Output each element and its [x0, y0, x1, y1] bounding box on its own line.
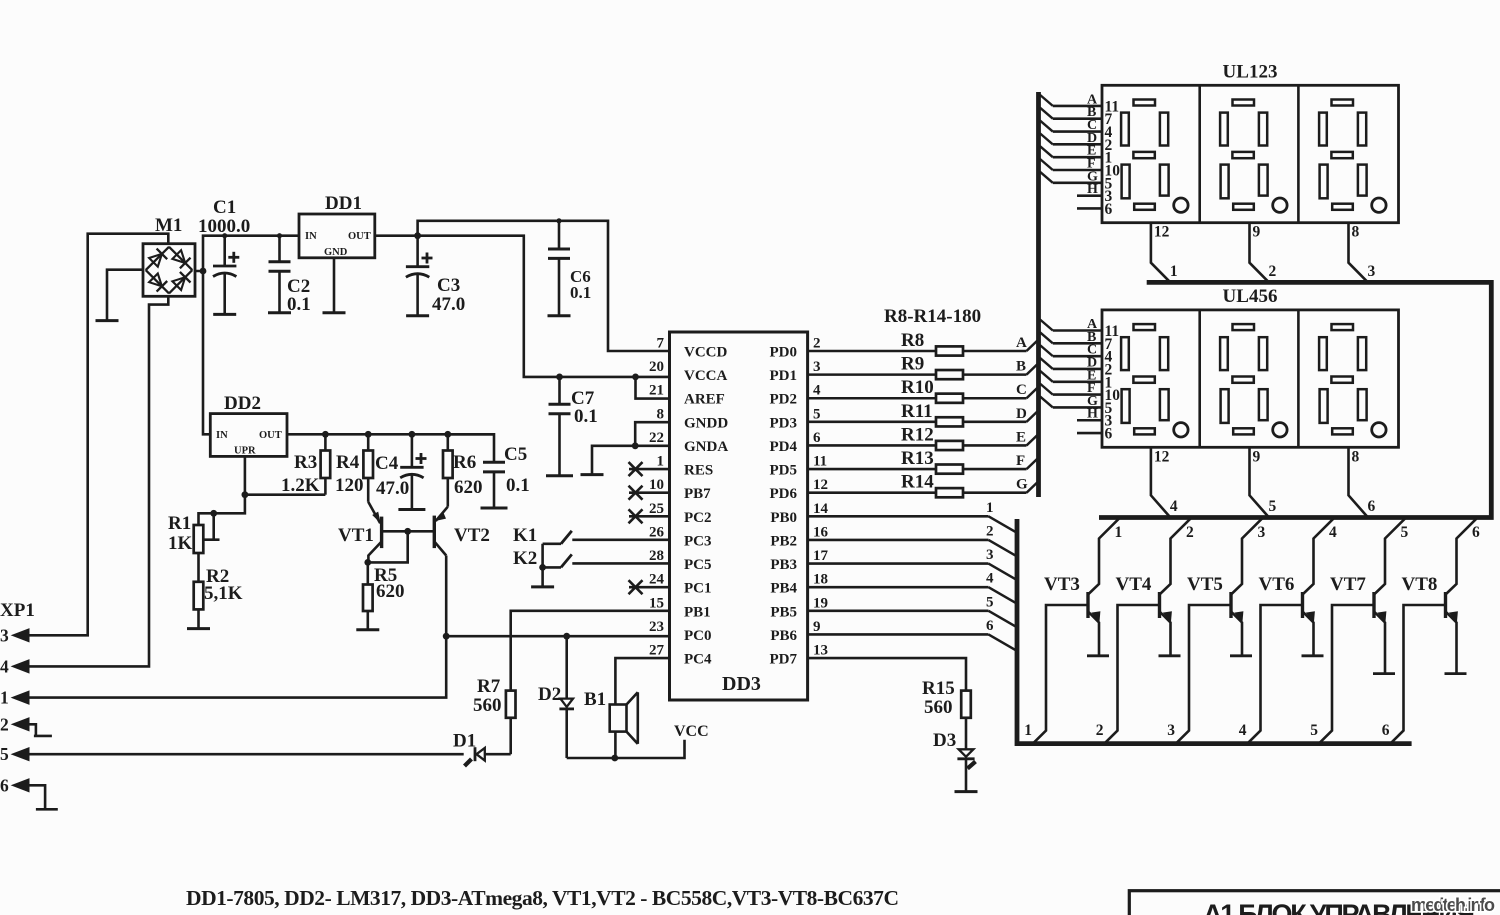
DD3 left pin number 28 [649, 548, 664, 564]
switch K1 [543, 531, 572, 544]
svg-text:medteh.info: medteh.info [1411, 895, 1495, 915]
svg-text:GNDA: GNDA [684, 439, 728, 455]
label D3 [933, 730, 956, 751]
svg-text:C1: C1 [213, 197, 236, 218]
svg-text:A: A [1016, 335, 1027, 351]
XP1 pin 2 number [0, 714, 9, 734]
UL456 digit pin 9 wire [1250, 447, 1270, 517]
capacitor C6 0.1 [548, 221, 570, 316]
DD3 right pin number 6 [813, 430, 821, 446]
label K1 [513, 525, 537, 546]
wire PB1 to R7 [511, 611, 670, 691]
VT6 base bus label 4 [1239, 722, 1247, 739]
DD3 right pin name PB2 [770, 533, 797, 549]
UL456 digit pin number 9 [1253, 448, 1261, 465]
label R14 [901, 472, 934, 493]
node C7 top [556, 374, 563, 381]
DD3 left pin name GNDA [684, 439, 728, 455]
UL123 pin number 10 [1105, 163, 1121, 180]
DD3 right pin number 14 [813, 501, 829, 517]
svg-text:H: H [1087, 182, 1098, 197]
transistor VT7 [1373, 519, 1405, 674]
UL123 segment letter C [1087, 118, 1097, 133]
UL123 segment letter G [1087, 169, 1098, 184]
svg-text:14: 14 [813, 501, 829, 517]
UL123 digit pin 12 wire [1151, 223, 1171, 283]
svg-text:24: 24 [649, 572, 665, 588]
wire GNDD GNDA loop to ground [592, 422, 670, 474]
svg-text:GNDD: GNDD [684, 415, 728, 431]
svg-text:2: 2 [986, 523, 994, 539]
ground for R2 [187, 627, 210, 630]
svg-text:0.1: 0.1 [574, 406, 598, 427]
label digit line 3 [986, 547, 994, 563]
XP1 pin 3 arrow [12, 629, 29, 642]
svg-text:K2: K2 [513, 548, 537, 569]
svg-text:PB4: PB4 [770, 581, 797, 597]
wire +5V upper rail to VCCD pin7 [418, 221, 670, 351]
svg-text:3: 3 [0, 625, 9, 645]
svg-text:DD1: DD1 [325, 193, 362, 214]
label R6 value 620 [454, 477, 483, 498]
label R6 [453, 452, 476, 473]
VT8 base wire from bus [1391, 605, 1446, 743]
svg-text:6: 6 [0, 775, 9, 795]
label R1 value 1K [168, 533, 193, 554]
svg-text:IN: IN [216, 430, 228, 441]
DD3 left pin number 1 [657, 454, 665, 470]
svg-text:PD0: PD0 [770, 345, 798, 361]
voltage regulator DD2 LM317 [210, 414, 287, 457]
svg-text:6: 6 [1472, 524, 1480, 541]
UL123 select wire label 1 [1170, 263, 1178, 280]
label C3 [437, 275, 460, 296]
svg-text:R7: R7 [477, 676, 501, 697]
node VT1 collector R5 [364, 559, 371, 566]
svg-text:PB0: PB0 [770, 510, 797, 526]
UL456 segment letter G [1087, 394, 1098, 409]
wire M1 bottom to XP1 pin4 [29, 296, 168, 666]
wire AREF loop [636, 377, 670, 399]
resistor R3 1.2K [321, 434, 331, 494]
VT5 base wire from bus [1176, 605, 1231, 743]
capacitor C2 0.1 [269, 236, 291, 313]
wire R3 bottom to DD2 UPR and R1 [199, 456, 326, 525]
label C6 value 0.1 [570, 283, 591, 302]
UL123 pin6 stub [1077, 207, 1102, 210]
UL123 digit pin number 8 [1352, 224, 1360, 241]
node C4 top [409, 431, 416, 438]
svg-text:1: 1 [0, 688, 9, 708]
VT6 collector bus label 4 [1329, 524, 1337, 541]
UL123 select wire label 3 [1368, 263, 1376, 280]
DD3 left pin number 22 [649, 430, 664, 446]
ground for C3 [406, 314, 429, 317]
UL123 digit pin number 12 [1154, 224, 1170, 241]
svg-text:PD4: PD4 [770, 439, 798, 455]
label B1 [584, 689, 606, 710]
label D1 [453, 731, 476, 752]
DD3 left pin number 25 [649, 501, 664, 517]
X mark PB7 [629, 486, 643, 500]
UL456 segment A wire from bus [1040, 320, 1102, 331]
svg-text:47.0: 47.0 [432, 294, 465, 315]
svg-text:2: 2 [1096, 722, 1104, 739]
label segment D at resistor [1016, 406, 1027, 422]
transistor VT5 [1230, 519, 1262, 656]
XP1 pin 2 arrow [12, 718, 29, 731]
svg-text:3: 3 [1167, 722, 1175, 739]
DD3 left pin number 27 [649, 643, 665, 659]
transistor VT6 [1302, 519, 1334, 656]
wire PB digit line 5 [808, 611, 1017, 628]
label C3 value 47.0 [432, 294, 465, 315]
capacitor C1 1000.0 polarized [213, 236, 239, 315]
wire PB digit line 1 [808, 516, 1017, 533]
svg-text:23: 23 [649, 619, 664, 635]
svg-text:17: 17 [813, 548, 829, 564]
DD3 left pin name PB1 [684, 604, 711, 620]
resistor R14 180 [936, 488, 963, 497]
UL123 pin number 2 [1105, 137, 1113, 154]
svg-text:XP1: XP1 [0, 600, 35, 621]
label R2 value 5,1K [204, 583, 243, 604]
svg-text:G: G [1016, 477, 1028, 493]
VT4 base bus label 2 [1096, 722, 1104, 739]
DD3 right pin number 17 [813, 548, 829, 564]
label DD3 [722, 673, 761, 695]
node K2 common [539, 564, 546, 571]
svg-text:PB6: PB6 [770, 628, 797, 644]
VT4 base wire from bus [1105, 605, 1160, 743]
svg-text:C4: C4 [375, 453, 399, 474]
svg-text:PD6: PD6 [770, 486, 798, 502]
wire VT2 collector to XP1 pin1 [29, 556, 446, 698]
UL456 segment G wire from bus [1040, 396, 1102, 407]
transistor VT1 [368, 502, 381, 563]
wire R12 to segment bus [963, 434, 1039, 446]
svg-text:5,1K: 5,1K [204, 583, 243, 604]
DD3 left pin name PB7 [684, 486, 711, 502]
DD3 right pin name PD0 [770, 345, 798, 361]
UL456 segment H stub [1077, 419, 1102, 422]
resistor R6 620 [443, 434, 453, 506]
svg-text:R11: R11 [901, 401, 933, 422]
label VT3 [1044, 574, 1080, 595]
wire VT1 collector loop to base [368, 531, 408, 562]
svg-text:PD7: PD7 [770, 652, 798, 668]
switch K2 [543, 544, 572, 568]
R1 wiper stub [202, 513, 220, 539]
svg-text:D1: D1 [453, 731, 476, 752]
label segment F at resistor [1016, 453, 1025, 469]
svg-text:8: 8 [1352, 448, 1360, 465]
UL123 segment letter A [1087, 92, 1098, 107]
wire PB digit line 4 [808, 587, 1017, 604]
label R13 [901, 448, 934, 469]
svg-text:6: 6 [813, 430, 821, 446]
svg-text:PD1: PD1 [770, 368, 798, 384]
wire PD0 to resistor R8 [808, 350, 936, 353]
caption component list [186, 886, 899, 910]
svg-text:6: 6 [1382, 722, 1390, 739]
UL456 pin number 4 [1105, 349, 1113, 366]
DD3 left pin name GNDD [684, 415, 728, 431]
svg-text:VT5: VT5 [1187, 574, 1223, 595]
svg-text:1: 1 [1024, 722, 1032, 739]
UL456 segment letter H [1087, 407, 1098, 422]
label VCC [674, 723, 709, 740]
wire K common to ground [541, 567, 544, 587]
label C2 [287, 276, 310, 297]
svg-text:12: 12 [1154, 224, 1170, 241]
svg-text:22: 22 [649, 430, 664, 446]
svg-text:VT8: VT8 [1402, 574, 1438, 595]
voltage regulator DD1 7805 [299, 214, 375, 258]
svg-text:4: 4 [986, 571, 994, 587]
label segment G at resistor [1016, 477, 1028, 493]
diode D2 [559, 636, 574, 758]
DD3 right pin number 4 [813, 383, 821, 399]
DD3 right pin number 9 [813, 619, 821, 635]
label VT2 [454, 525, 490, 546]
UL456 select wire label 5 [1269, 498, 1277, 515]
svg-text:2: 2 [0, 714, 9, 734]
UL123 segment B wire from bus [1040, 108, 1102, 119]
UL123 segment C wire from bus [1040, 121, 1102, 132]
XP1 pin2 stub terminator [29, 724, 52, 736]
wire PB digit line 6 [808, 634, 1017, 651]
svg-text:8: 8 [1352, 224, 1360, 241]
UL456 segment C wire from bus [1040, 345, 1102, 356]
node AREF tap [632, 374, 639, 381]
DD3 right pin number 19 [813, 595, 828, 611]
svg-text:2: 2 [1269, 263, 1277, 280]
wire M1 out node and +raw rail [195, 236, 299, 435]
UL123 pin number 5 [1105, 175, 1113, 192]
svg-text:DD1-7805, DD2- LM317, DD3-ATme: DD1-7805, DD2- LM317, DD3-ATmega8, VT1,V… [186, 886, 899, 910]
svg-text:UL456: UL456 [1223, 286, 1278, 307]
svg-text:5: 5 [1310, 722, 1318, 739]
label R3 [294, 452, 317, 473]
label digit line 6 [986, 618, 994, 634]
UL123 segment H stub [1077, 194, 1102, 197]
svg-text:PB7: PB7 [684, 486, 711, 502]
DD3 left pin name PC0 [684, 628, 712, 644]
XP1 pin 6 arrow [12, 779, 29, 792]
svg-text:UL123: UL123 [1223, 61, 1278, 82]
DD3 right pin number 13 [813, 643, 828, 659]
UL123 select wire label 2 [1269, 263, 1277, 280]
label R8 [901, 330, 924, 351]
ground for C2 [268, 311, 291, 314]
VT7 base bus label 5 [1310, 722, 1318, 739]
DD2 pin label OUT [259, 430, 282, 441]
X mark PC1 [629, 580, 643, 594]
svg-text:VT2: VT2 [454, 525, 490, 546]
UL456 digit pin 8 wire [1349, 447, 1369, 517]
svg-text:R13: R13 [901, 448, 934, 469]
svg-text:C5: C5 [504, 444, 527, 465]
label R15 value 560 [924, 697, 953, 718]
svg-text:0.1: 0.1 [570, 283, 591, 302]
svg-text:R3: R3 [294, 452, 317, 473]
UL123 pin number 11 [1105, 98, 1120, 115]
XP1 pin 6 number [0, 775, 9, 795]
svg-text:C: C [1016, 382, 1027, 398]
svg-text:D: D [1016, 406, 1027, 422]
svg-text:620: 620 [454, 477, 483, 498]
UL123 segment F wire from bus [1040, 159, 1102, 170]
segment bus vertical [1036, 92, 1041, 497]
label UL123 [1223, 61, 1278, 82]
DD3 left pin name AREF [684, 392, 725, 408]
svg-text:1: 1 [657, 454, 665, 470]
label segment A at resistor [1016, 335, 1027, 351]
svg-text:PD2: PD2 [770, 392, 798, 408]
svg-text:OUT: OUT [259, 430, 282, 441]
svg-text:R6: R6 [453, 452, 476, 473]
label VT8 [1402, 574, 1438, 595]
node C2 top [277, 233, 282, 238]
label segment C at resistor [1016, 382, 1027, 398]
label C2 value 0.1 [287, 294, 311, 315]
DD3 left pin name PC3 [684, 533, 712, 549]
digit select bus UL123-UL456 [1099, 282, 1491, 517]
VT3 base wire from bus [1033, 605, 1088, 743]
svg-text:R15: R15 [922, 678, 955, 699]
resistor R8 180 [936, 346, 963, 355]
transistor VT2 [434, 507, 448, 556]
DD3 left pin number 21 [649, 383, 664, 399]
svg-text:5: 5 [0, 744, 9, 764]
label C5 [504, 444, 527, 465]
DD3 right pin number 16 [813, 524, 829, 540]
DD3 right pin number 3 [813, 359, 821, 375]
svg-text:21: 21 [649, 383, 664, 399]
label VT4 [1116, 574, 1152, 595]
svg-text:R1: R1 [168, 513, 191, 534]
VT3 base bus label 1 [1024, 722, 1032, 739]
resistor R1 1K trimmer [194, 525, 204, 582]
UL123 segment A wire from bus [1040, 95, 1102, 106]
XP1 pin 1 number [0, 688, 9, 708]
UL456 pin number 1 [1105, 374, 1113, 391]
svg-text:13: 13 [813, 643, 828, 659]
transistor VT3 [1087, 519, 1119, 656]
UL456 segment letter B [1087, 330, 1096, 345]
node GNDA [632, 442, 639, 449]
DD3 right pin number 5 [813, 406, 821, 422]
UL456 segment letter F [1087, 381, 1096, 396]
UL123 segment letter F [1087, 157, 1096, 172]
label VT7 [1330, 574, 1366, 595]
label R10 [901, 377, 934, 398]
label DD2 [224, 393, 261, 414]
UL456 pin6 stub [1077, 432, 1102, 435]
label D2 [538, 684, 561, 705]
svg-text:PB2: PB2 [770, 533, 797, 549]
svg-text:6: 6 [1105, 426, 1113, 443]
svg-text:B1: B1 [584, 689, 606, 710]
label K2 [513, 548, 537, 569]
wire PD5 to resistor R13 [808, 468, 936, 471]
DD3 left pin name PC1 [684, 581, 712, 597]
svg-text:12: 12 [813, 477, 828, 493]
svg-text:10: 10 [649, 477, 664, 493]
svg-text:VT3: VT3 [1044, 574, 1080, 595]
UL123 segment letter B [1087, 105, 1096, 120]
label C4 value 47.0 [376, 478, 409, 499]
ground for M1 left pin [96, 319, 119, 322]
label C1 value 1000.0 [198, 216, 250, 237]
DD3 left pin name PC2 [684, 510, 712, 526]
node B1 bottom [611, 755, 618, 762]
svg-text:C3: C3 [437, 275, 460, 296]
svg-text:DD2: DD2 [224, 393, 261, 414]
UL123 pin number 7 [1105, 111, 1113, 128]
VT7 base wire from bus [1319, 605, 1374, 743]
label VT1 [338, 525, 374, 546]
X mark PC2 [629, 509, 643, 523]
node VT1 base-collector tie [404, 528, 411, 535]
ground for D3 [955, 790, 978, 793]
svg-text:5: 5 [813, 406, 821, 422]
svg-text:B: B [1016, 359, 1026, 375]
svg-text:D2: D2 [538, 684, 561, 705]
UL456 segment E wire from bus [1040, 371, 1102, 382]
label C7 value 0.1 [574, 406, 598, 427]
label C4 [375, 453, 399, 474]
DD1 GND pin wire [333, 258, 336, 313]
label R15 [922, 678, 955, 699]
ground for C1 [213, 313, 236, 316]
DD3 right pin name PD2 [770, 392, 798, 408]
svg-text:VT4: VT4 [1116, 574, 1152, 595]
bridge rectifier M1 [143, 244, 195, 297]
DD3 right pin name PB3 [770, 557, 797, 573]
label digit line 1 [986, 500, 994, 516]
wire PC0 to MCU [446, 635, 669, 638]
DD3 right pin name PD1 [770, 368, 798, 384]
wire R8 to segment bus [963, 340, 1039, 352]
svg-text:18: 18 [813, 572, 828, 588]
svg-text:OUT: OUT [348, 231, 371, 242]
DD3 PC1 stub not connected [629, 586, 670, 589]
label XP1 [0, 600, 35, 621]
svg-text:5: 5 [986, 594, 994, 610]
resistor R12 180 [936, 441, 963, 450]
wire PD4 to resistor R12 [808, 444, 936, 447]
svg-text:3: 3 [813, 359, 821, 375]
svg-text:D3: D3 [933, 730, 956, 751]
node R1 wiper tie [210, 510, 217, 517]
UL123 digit 1 seven-segment [1121, 100, 1188, 213]
wire +5V lower rail to VCCA pin20 [418, 236, 670, 377]
svg-text:3: 3 [1368, 263, 1376, 280]
label segment E at resistor [1016, 429, 1026, 445]
label R7 [477, 676, 501, 697]
svg-text:9: 9 [1253, 224, 1261, 241]
svg-text:4: 4 [0, 656, 9, 676]
label C7 [571, 388, 595, 409]
svg-text:4: 4 [1170, 498, 1178, 515]
DD3 right pin name PD5 [770, 463, 798, 479]
svg-text:DD3: DD3 [722, 673, 761, 695]
wire XP1 pin3 to M1 top (AC input) [29, 234, 168, 636]
wire R13 to segment bus [963, 458, 1039, 470]
svg-text:1: 1 [1170, 263, 1178, 280]
